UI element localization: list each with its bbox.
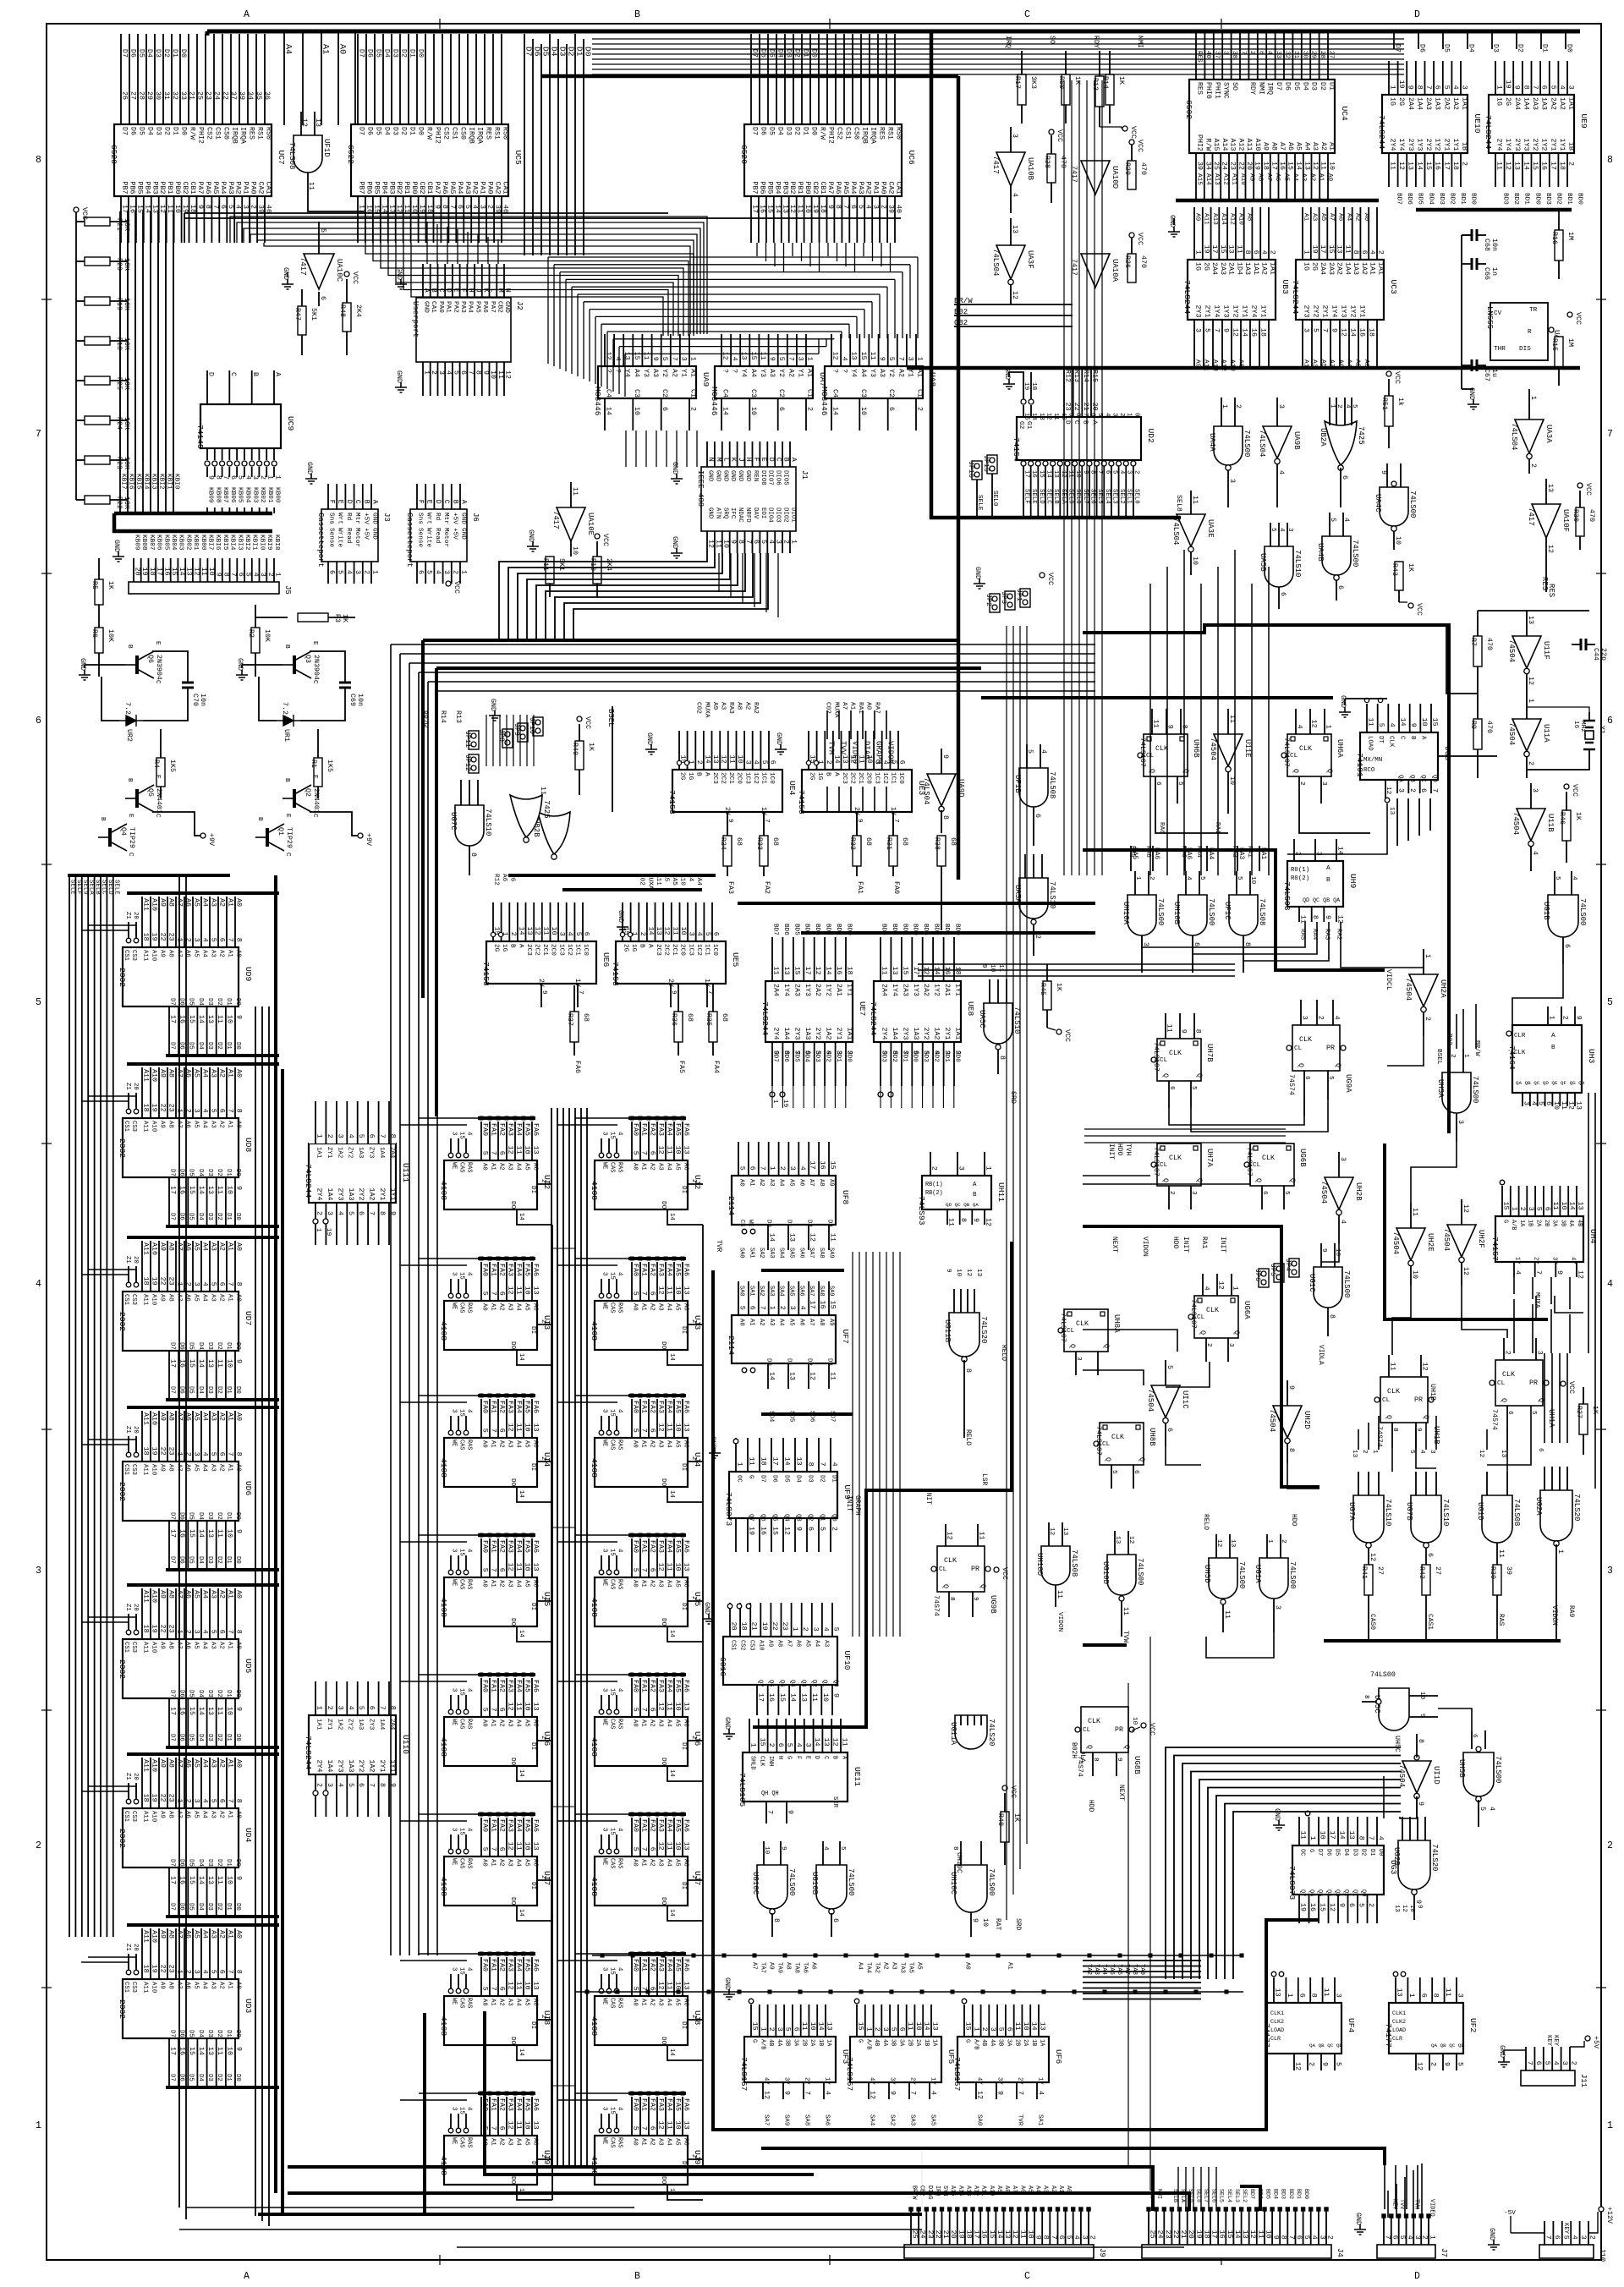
svg-text:JP10: JP10 [528,717,535,734]
svg-text:A3: A3 [507,1719,513,1727]
svg-text:4108: 4108 [439,1737,448,1757]
svg-text:10: 10 [809,2022,816,2031]
svg-text:BD5: BD5 [1264,2189,1270,2199]
svg-text:FA1: FA1 [640,1264,648,1276]
keyboard bus [114,512,272,516]
inverter UH2F 74504 [1447,1225,1476,1257]
svg-text:4: 4 [251,573,259,577]
svg-text:KBI7: KBI7 [120,474,127,490]
video mid horizontals [1083,1175,1150,1176]
svg-text:12: 12 [1421,1363,1429,1371]
svg-text:11: 11 [1223,1610,1231,1619]
svg-text:2: 2 [1504,1351,1512,1355]
svg-text:A0: A0 [235,1982,242,1989]
svg-text:INIT: INIT [1107,1143,1115,1160]
svg-text:31: 31 [162,91,170,100]
svg-text:2A3: 2A3 [1327,262,1335,275]
svg-text:3: 3 [1274,1605,1281,1610]
svg-text:15: 15 [609,1549,616,1556]
svg-text:R47: R47 [294,308,301,321]
svg-text:19: 19 [1254,162,1261,170]
svg-text:1Y3: 1Y3 [912,984,919,996]
svg-text:CAS1: CAS1 [1426,1614,1434,1630]
svg-text:RS0: RS0 [895,127,903,140]
svg-text:D3: D3 [392,49,399,58]
svg-text:D3: D3 [392,127,399,135]
svg-text:8: 8 [1358,1836,1365,1840]
svg-text:15: 15 [1219,245,1226,254]
svg-text:UF1D: UF1D [322,139,331,157]
svg-text:1A3: 1A3 [357,1719,364,1730]
svg-text:6: 6 [498,1292,506,1296]
svg-text:7: 7 [368,1783,376,1787]
svg-text:3: 3 [326,1783,333,1787]
svg-text:10: 10 [225,2047,233,2055]
svg-text:SYNC: SYNC [1222,82,1230,99]
svg-text:8: 8 [235,1109,243,1113]
svg-text:A3: A3 [210,1464,217,1472]
svg-text:D1: D1 [1328,82,1336,90]
svg-text:RELO: RELO [964,1429,972,1445]
svg-text:4: 4 [1203,1286,1210,1291]
svg-text:10: 10 [1060,413,1067,420]
svg-text:24: 24 [1221,162,1228,170]
svg-text:18: 18 [1451,162,1459,170]
svg-text:RAS: RAS [617,1998,623,2008]
svg-text:MC3446: MC3446 [593,387,602,416]
svg-text:6: 6 [1168,1086,1175,1090]
CPU 6502 UC4 [1189,80,1335,153]
svg-text:15: 15 [609,2107,616,2114]
svg-text:E: E [452,288,459,293]
svg-text:19: 19 [1202,245,1210,254]
svg-text:D7: D7 [751,49,759,58]
svg-text:A4: A4 [515,1719,522,1727]
svg-text:PHI2: PHI2 [1196,134,1204,151]
svg-text:Y2: Y2 [661,369,668,377]
svg-text:11: 11 [1322,1988,1330,1997]
svg-text:A9: A9 [159,1930,167,1939]
svg-text:BD7: BD7 [772,924,779,935]
svg-text:2Y: 2Y [909,2077,916,2085]
svg-text:D7: D7 [169,1734,176,1741]
svg-text:C: C [229,372,237,376]
svg-text:2: 2 [184,938,192,942]
svg-text:7: 7 [490,2126,497,2131]
svg-text:FA5: FA5 [524,1819,531,1832]
svg-text:5: 5 [738,1306,746,1310]
svg-text:UF10: UF10 [842,1651,852,1670]
svg-text:7: 7 [227,1282,234,1286]
svg-text:12: 12 [395,205,403,213]
svg-text:KB08: KB08 [214,487,221,503]
svg-text:A1: A1 [640,1163,647,1171]
svg-text:1: 1 [1221,404,1228,409]
svg-text:VIDLA: VIDLA [1317,1345,1325,1365]
svg-text:D7: D7 [1275,82,1282,90]
svg-text:19: 19 [748,1527,755,1535]
svg-text:470: 470 [1139,255,1147,268]
svg-text:WE: WE [451,1162,458,1169]
svg-text:D3: D3 [206,1690,213,1697]
svg-text:GND: GND [460,528,467,540]
svg-text:15: 15 [188,1186,195,1194]
svg-text:2Y2: 2Y2 [357,1760,365,1773]
svg-text:2C2: 2C2 [534,944,540,956]
svg-text:2Y1: 2Y1 [1442,139,1450,151]
svg-text:A11: A11 [142,898,150,911]
svg-text:12: 12 [1527,677,1534,685]
svg-text:CS1: CS1 [123,1464,129,1475]
svg-text:2332: 2332 [118,1999,127,2019]
svg-text:Q: Q [1148,769,1155,773]
svg-text:WE: WE [601,1719,608,1725]
IEEE wire fan [499,553,707,639]
svg-text:ZY2: ZY2 [347,1147,354,1158]
inverter UA3A 74LS04 [1515,420,1544,453]
svg-text:B: B [782,458,790,462]
svg-text:13: 13 [841,755,848,764]
svg-text:16: 16 [365,205,372,213]
svg-text:A3: A3 [507,1440,513,1448]
svg-text:H: H [744,458,752,462]
svg-text:13: 13 [1011,225,1018,233]
svg-text:18: 18 [1262,162,1270,170]
multiplexer UE6 74153 [486,941,596,984]
svg-text:D5: D5 [188,1169,195,1176]
svg-text:SEL8: SEL8 [1074,489,1081,504]
gnd UE3 [775,744,787,754]
svg-text:R30: R30 [1572,509,1579,522]
svg-text:UC7: UC7 [277,151,286,165]
svg-text:D0: D0 [1377,1849,1384,1856]
svg-text:D6: D6 [129,49,136,58]
svg-text:14: 14 [197,1529,205,1538]
svg-text:5: 5 [210,938,217,942]
svg-text:A1: A1 [490,1303,497,1311]
svg-text:A8: A8 [167,1242,175,1251]
svg-text:15: 15 [458,1967,465,1975]
svg-text:A4: A4 [515,1440,522,1448]
svg-text:1A3: 1A3 [912,1028,919,1040]
svg-text:10: 10 [550,927,557,935]
svg-text:74153: 74153 [611,962,620,986]
svg-text:5: 5 [1204,328,1211,332]
svg-text:2: 2 [1567,162,1575,166]
svg-text:3: 3 [796,357,804,361]
counter UG5 74191 [1360,732,1438,780]
svg-text:CS1: CS1 [123,1982,129,1993]
svg-text:UG7C: UG7C [449,812,458,831]
svg-text:2K4: 2K4 [354,304,362,317]
svg-text:7: 7 [227,1630,234,1634]
svg-text:R0(1): R0(1) [1291,867,1309,874]
svg-text:22: 22 [159,1447,167,1456]
svg-text:16: 16 [835,967,842,975]
svg-text:DI: DI [529,1742,536,1750]
svg-text:FA4: FA4 [666,1819,673,1832]
inverter UI1D 74S04 [1402,1761,1431,1793]
svg-text:SD2: SD2 [891,1050,897,1062]
svg-text:Q: Q [941,1584,949,1588]
svg-text:A5: A5 [524,1440,530,1448]
svg-text:Q3: Q3 [304,655,311,663]
svg-text:2: 2 [980,2027,988,2032]
svg-text:KB01: KB01 [192,535,199,551]
resistor R7 470 [1473,636,1482,666]
svg-text:7: 7 [1213,328,1221,332]
svg-text:SELA: SELA [1060,489,1067,504]
svg-text:A15: A15 [1196,173,1203,185]
svg-text:D1: D1 [225,1734,232,1741]
svg-text:A3: A3 [507,1580,513,1588]
svg-text:A11: A11 [142,1982,149,1994]
svg-text:68: 68 [582,1013,590,1022]
svg-text:A11: A11 [142,1642,149,1654]
nested wire loop UG3 to UF4 UF2 [1166,1747,1401,1979]
svg-text:15: 15 [749,352,757,360]
svg-text:1K5: 1K5 [168,760,176,772]
svg-text:2C2: 2C2 [849,772,856,784]
svg-text:A4: A4 [666,1440,672,1448]
svg-text:10: 10 [1420,718,1428,727]
svg-text:26: 26 [121,91,129,100]
bottom-right connector feeds [1384,2165,1385,2209]
svg-text:CS1: CS1 [451,127,458,140]
svg-text:CLR: CLR [1270,2036,1281,2043]
svg-text:6: 6 [1133,1470,1139,1474]
svg-text:A6: A6 [683,1303,689,1311]
resistor R32 68 [853,836,861,866]
svg-text:D1: D1 [409,127,416,135]
svg-text:7: 7 [758,1306,765,1310]
svg-text:C1: C1 [916,389,924,398]
svg-text:DO: DO [660,1201,667,1209]
svg-text:14: 14 [783,1457,791,1466]
connector J4 expansion 2 [1142,2245,1331,2258]
svg-text:1A1: 1A1 [1369,262,1376,275]
svg-text:4: 4 [1073,2235,1080,2240]
svg-text:CB2: CB2 [418,182,425,195]
svg-text:A: A [460,500,468,504]
svg-text:PB1: PB1 [403,182,410,195]
svg-text:D6: D6 [366,127,374,135]
svg-text:Y4: Y4 [740,369,748,377]
svg-text:10: 10 [749,407,757,415]
video region infill wires [1392,1286,1411,1355]
svg-text:9: 9 [1555,1270,1563,1275]
svg-text:PB3: PB3 [781,182,788,195]
gate UG1D 74LS08 [1482,1495,1512,1543]
svg-text:18: 18 [819,205,826,213]
svg-text:5: 5 [1236,876,1243,880]
svg-text:A1: A1 [1007,1962,1013,1970]
ROM UD3 address bus tap [127,1923,279,1927]
svg-text:D0: D0 [234,1859,241,1867]
svg-text:74L593: 74L593 [1282,881,1292,911]
svg-text:4B: 4B [1576,1220,1583,1226]
svg-text:2: 2 [184,1109,192,1113]
svg-text:A2: A2 [670,369,678,377]
horizontal long runs bottom left [186,2207,634,2208]
svg-text:C: C [284,853,291,857]
svg-text:27: 27 [1376,1566,1384,1575]
ROM UD5 2332 [123,1639,239,1698]
svg-text:A5: A5 [524,1719,530,1727]
svg-text:11: 11 [1367,718,1374,727]
svg-text:D3: D3 [785,127,793,135]
svg-text:6: 6 [1298,1994,1305,1998]
svg-text:4: 4 [1040,749,1047,754]
svg-text:Q: Q [1104,1457,1111,1462]
svg-text:7: 7 [368,1211,376,1215]
svg-text:5K1: 5K1 [557,558,565,571]
svg-text:1: 1 [1424,954,1431,958]
svg-text:UH7A: UH7A [1205,1149,1214,1167]
svg-text:12: 12 [507,2121,514,2130]
svg-text:A9: A9 [159,950,166,957]
svg-text:RAS: RAS [466,1162,473,1172]
svg-text:10K: 10K [123,337,130,350]
svg-text:VIDCL: VIDCL [1385,969,1392,990]
svg-text:10: 10 [633,407,640,415]
svg-text:1A4: 1A4 [326,1760,333,1773]
svg-text:74LS04: 74LS04 [1510,423,1518,450]
svg-text:10: 10 [914,2022,922,2031]
gate UH5B 74LS00 [1463,1752,1494,1796]
svg-text:D0: D0 [234,1169,241,1176]
ROM UD4 address bus tap [127,1752,279,1756]
svg-text:A2: A2 [218,1069,226,1078]
svg-text:CAS: CAS [458,2137,465,2147]
svg-text:A2: A2 [649,1859,656,1867]
DRAM UJ7 4108 [595,1856,688,1906]
svg-text:A4: A4 [666,1999,672,2006]
svg-text:A3: A3 [210,1412,217,1421]
svg-text:9: 9 [1330,328,1338,332]
svg-text:A4: A4 [515,1859,522,1867]
svg-text:3K3: 3K3 [1029,76,1037,89]
svg-text:D2: D2 [216,1169,222,1176]
svg-text:CLK: CLK [758,1756,765,1767]
svg-text:10: 10 [225,1876,233,1884]
DRAM UJ3 4108 [595,1301,688,1350]
svg-text:11: 11 [666,1842,673,1851]
svg-text:34: 34 [1204,162,1211,170]
svg-text:PA4: PA4 [456,182,464,195]
svg-text:14: 14 [518,1769,524,1777]
svg-text:4: 4 [336,1783,343,1787]
svg-text:2C0: 2C0 [736,772,743,784]
svg-text:19: 19 [1194,2230,1202,2239]
svg-text:Q: Q [1122,1745,1130,1749]
svg-text:A1: A1 [490,1440,497,1448]
svg-text:15: 15 [372,205,380,213]
svg-text:19: 19 [811,205,819,213]
svg-text:2A4: 2A4 [388,1147,395,1159]
svg-text:13: 13 [1575,1101,1583,1110]
svg-text:PB6: PB6 [365,182,372,195]
svg-text:TVR: TVR [715,1240,722,1252]
svg-text:PB0: PB0 [410,182,418,195]
svg-text:5: 5 [1549,85,1556,90]
svg-text:UE5: UE5 [731,952,740,968]
svg-text:4108: 4108 [590,1598,599,1617]
gate UA5A 74LS10 [1019,878,1048,919]
svg-text:5: 5 [481,1292,489,1296]
svg-text:13: 13 [206,1015,214,1023]
DRAM DI feed lines [552,1248,575,1249]
svg-text:4: 4 [1488,1807,1495,1811]
svg-text:CS1: CS1 [214,127,222,140]
svg-text:6: 6 [583,932,590,936]
svg-text:Z1: Z1 [124,1944,131,1951]
svg-text:9: 9 [1287,1385,1295,1390]
svg-text:Q3: Q3 [795,1514,802,1522]
svg-text:A9: A9 [768,1962,775,1970]
svg-text:D7: D7 [169,2030,176,2037]
svg-text:RAS: RAS [617,1579,623,1589]
svg-text:13: 13 [975,1269,982,1277]
svg-text:D6: D6 [760,127,767,135]
svg-text:12: 12 [809,1233,816,1242]
svg-text:21: 21 [1179,2230,1187,2239]
svg-text:R18: R18 [115,337,123,350]
svg-text:4: 4 [201,1282,209,1286]
svg-text:PB6: PB6 [128,182,135,195]
svg-text:2C2: 2C2 [720,772,727,784]
svg-text:6: 6 [1563,944,1571,948]
svg-text:A0: A0 [632,1440,639,1448]
svg-text:A2: A2 [498,1999,505,2006]
svg-text:A2: A2 [218,1759,226,1768]
svg-text:DO: DO [509,1478,516,1487]
svg-text:36: 36 [263,91,271,100]
svg-text:13: 13 [314,118,321,127]
svg-text:Q: Q [1385,1415,1392,1419]
svg-text:D2: D2 [216,1042,222,1050]
svg-text:5: 5 [319,228,326,233]
svg-text:SEL4: SEL4 [1226,2189,1232,2202]
svg-text:DO: DO [660,1897,667,1906]
svg-text:2: 2 [1308,2062,1315,2066]
svg-text:UG1A: UG1A [1254,1565,1262,1583]
svg-text:9: 9 [207,475,215,480]
svg-text:4: 4 [234,205,242,209]
svg-text:4: 4 [695,932,703,936]
svg-text:Sense: Sense [417,528,424,547]
svg-text:1A2: 1A2 [336,1719,343,1730]
svg-text:A4: A4 [201,1294,208,1302]
svg-text:OC: OC [1299,1849,1306,1856]
svg-text:PB5: PB5 [135,182,143,195]
svg-text:2Y2: 2Y2 [1312,305,1319,318]
svg-text:QA QB QC QD: QA QB QC QD [1431,2043,1464,2048]
gate UA4A 74LS00 [1214,426,1243,465]
svg-text:5: 5 [1457,2062,1464,2066]
svg-text:6: 6 [649,1151,656,1155]
svg-text:3: 3 [1287,528,1293,532]
svg-text:12: 12 [946,1532,953,1540]
svg-text:2114: 2114 [727,1196,736,1215]
svg-text:A4: A4 [515,1999,522,2006]
svg-text:6: 6 [769,760,776,765]
keyboard input wires KBI7-KBI0 [119,211,121,513]
svg-text:UA10F: UA10F [1561,509,1570,532]
svg-text:11: 11 [759,352,766,360]
svg-text:+5V: +5V [362,528,369,540]
svg-text:CL: CL [1497,1380,1506,1387]
